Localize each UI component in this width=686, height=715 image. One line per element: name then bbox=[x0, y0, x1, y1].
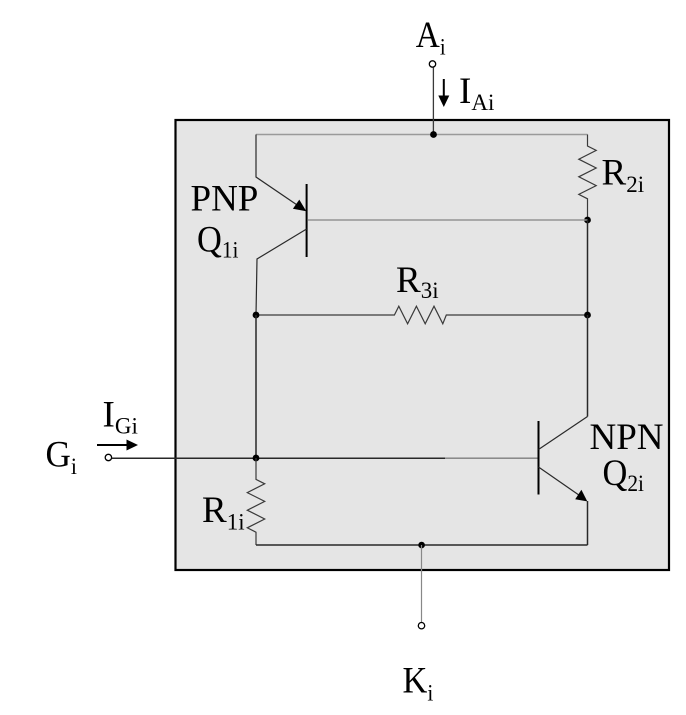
wire K lead bbox=[421, 545, 423, 622]
node R2i bottom bbox=[584, 217, 591, 224]
svg-text:IGi: IGi bbox=[103, 395, 138, 439]
wire PNP base to right rail bbox=[308, 219, 588, 221]
current arrow I_Ai bbox=[438, 79, 449, 107]
transistor Q2 NPN bbox=[539, 417, 588, 546]
collector diagonal bbox=[539, 417, 588, 450]
resistor R2i bbox=[579, 135, 596, 221]
node R3i right bbox=[584, 312, 591, 319]
current arrow I_Gi bbox=[97, 440, 138, 451]
terminal G circle bbox=[105, 454, 111, 460]
node K bbox=[418, 542, 425, 549]
svg-text:IAi: IAi bbox=[459, 71, 494, 115]
svg-text:PNP: PNP bbox=[191, 179, 259, 220]
wire gate right segment bbox=[445, 457, 538, 459]
emitter arrowhead bbox=[575, 490, 587, 502]
resistor R3i bbox=[256, 306, 588, 324]
svg-text:Ki: Ki bbox=[403, 659, 434, 705]
base bar bbox=[538, 421, 540, 495]
collector diagonal bbox=[256, 229, 307, 315]
node gate/R1i bbox=[253, 455, 260, 462]
wire A lead bbox=[432, 68, 434, 135]
node R3i left bbox=[253, 312, 260, 319]
wire emitter lead down bbox=[587, 501, 589, 545]
wire right rail R3i node to NPN collector bbox=[587, 315, 589, 417]
wire bottom rail bbox=[256, 544, 588, 546]
wire emitter lead bbox=[256, 135, 303, 210]
resistor R1i bbox=[247, 458, 264, 545]
emitter diagonal bbox=[539, 467, 582, 497]
wire gate bbox=[112, 457, 445, 459]
terminal K circle bbox=[418, 623, 424, 629]
wire left rail R3i node to gate node bbox=[255, 315, 257, 458]
svg-text:Ai: Ai bbox=[416, 14, 446, 59]
transistor Q1 PNP bbox=[256, 135, 307, 316]
terminal A circle bbox=[429, 61, 435, 67]
emitter arrowhead bbox=[293, 200, 306, 212]
wire top rail bbox=[256, 134, 588, 136]
device body box bbox=[176, 120, 670, 570]
wire right rail R2i node to R3i node bbox=[587, 220, 589, 315]
svg-text:Gi: Gi bbox=[46, 434, 77, 479]
node at A bbox=[430, 131, 437, 138]
base bar bbox=[306, 184, 308, 257]
